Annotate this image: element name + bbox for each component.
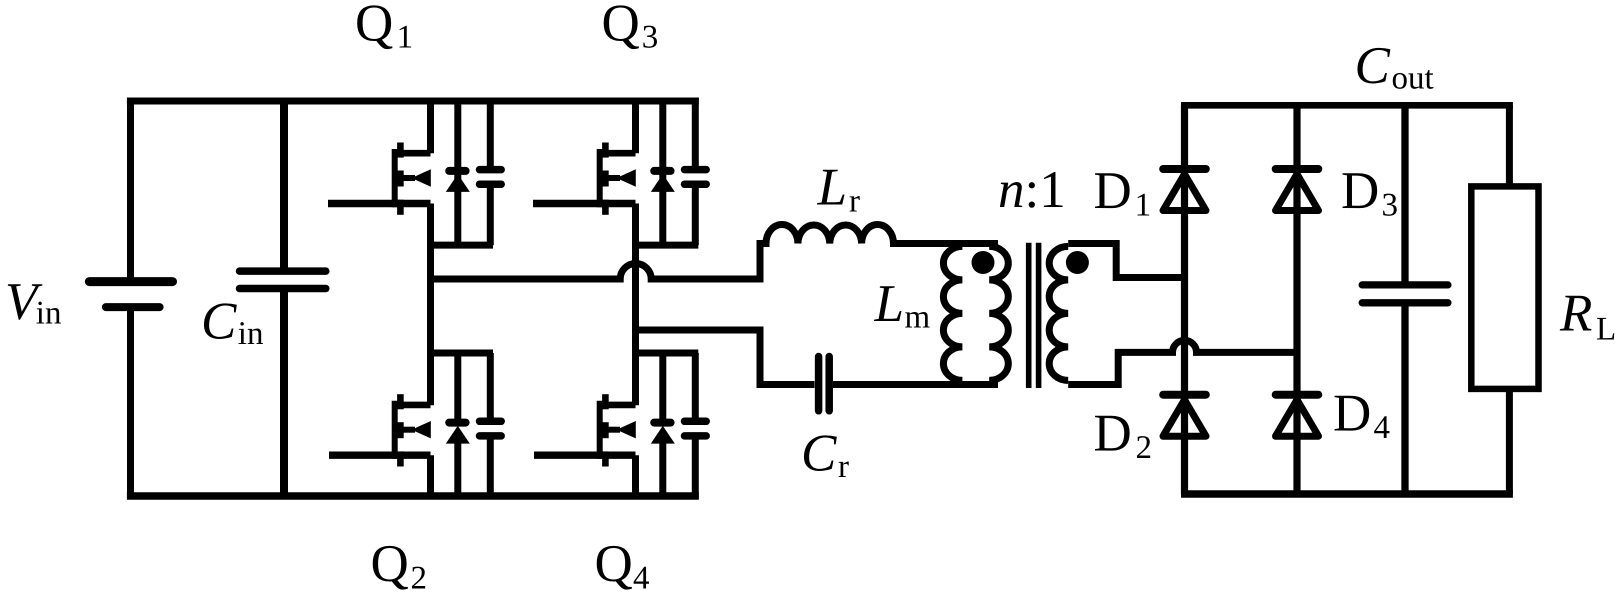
wire Cr to transformer bottom — [833, 381, 998, 388]
diode Q1 body — [446, 171, 470, 192]
svg-text:Q: Q — [602, 0, 640, 52]
cathode bar — [1163, 165, 1206, 173]
wire RL top — [1506, 105, 1513, 186]
wire Vin top — [127, 98, 134, 279]
capacitor Cr right plate — [825, 357, 833, 411]
wire gate/source lead — [534, 452, 636, 459]
wire Q4 body-diode branch top — [659, 353, 666, 424]
transformer core left bar — [1026, 243, 1032, 388]
wire Q2 cap branch top — [487, 353, 494, 418]
svg-text:in: in — [238, 316, 264, 352]
wire drain lead — [400, 402, 430, 409]
svg-text:2: 2 — [1136, 430, 1153, 466]
cathode bar — [654, 419, 670, 427]
wire Q4 cap branch top — [692, 353, 699, 418]
channel segment bottom — [397, 200, 404, 215]
wire Q1 cap branch bottom — [487, 188, 494, 246]
transformer secondary winding — [1049, 246, 1068, 380]
gate bar — [392, 401, 398, 459]
wire top rail (output) — [1181, 102, 1513, 109]
bottom plate — [685, 432, 707, 440]
channel segment bottom — [397, 451, 404, 466]
capacitor Cout bottom plate — [1362, 299, 1448, 306]
svg-text:m: m — [905, 300, 931, 336]
body arrow lead — [403, 427, 415, 433]
wire secondary top lead to D1-D2 node — [1068, 244, 1188, 278]
transistor Q3 — [533, 143, 636, 215]
capacitor Cin top plate — [240, 267, 326, 275]
wire Cout bottom — [1401, 306, 1408, 494]
svg-text:D: D — [1341, 162, 1379, 220]
wire drain lead — [605, 150, 635, 157]
diode Q2 body — [446, 423, 470, 444]
capacitor Q2 snubber — [480, 421, 502, 436]
svg-text:D: D — [1333, 385, 1371, 443]
capacitor Cr left plate — [815, 357, 823, 411]
svg-text:1: 1 — [397, 20, 414, 56]
channel segment middle — [602, 171, 609, 187]
wire Cin bottom — [280, 291, 288, 499]
svg-text:3: 3 — [1382, 188, 1399, 224]
capacitor Q4 snubber — [685, 421, 707, 436]
channel segment middle — [397, 171, 404, 187]
capacitor Cout top plate — [1362, 281, 1448, 288]
channel segment middle — [397, 422, 404, 438]
transistor Q4 — [534, 394, 636, 466]
wire Q1 cap branch top — [487, 98, 494, 167]
wire Q1 cell bottom connector — [427, 242, 493, 249]
wire drain lead — [400, 150, 430, 157]
wire Q2 body-diode branch bottom — [454, 440, 461, 499]
wire Vin bottom — [127, 307, 134, 499]
cathode bar — [449, 419, 465, 427]
wire gate/source lead — [533, 200, 636, 207]
wire Q4 body-diode branch bottom — [659, 440, 666, 499]
svg-text:C: C — [1355, 37, 1391, 95]
svg-text::1: :1 — [1025, 161, 1066, 219]
diode D1 — [1163, 169, 1206, 211]
bottom plate — [480, 180, 502, 188]
svg-text:r: r — [849, 184, 860, 220]
wire Q3 cell bottom connector — [632, 242, 698, 249]
channel segment bottom — [602, 451, 609, 466]
channel segment top — [602, 394, 609, 409]
top plate — [480, 418, 502, 426]
svg-text:C: C — [201, 293, 237, 351]
resistor RL — [1471, 186, 1538, 389]
anode triangle — [651, 174, 675, 192]
anode triangle — [446, 174, 470, 192]
svg-text:Q: Q — [355, 0, 393, 52]
channel segment top — [602, 143, 609, 158]
svg-text:1: 1 — [1135, 188, 1152, 224]
body arrow lead — [608, 427, 620, 433]
transistor Q2 — [329, 394, 431, 466]
wire Q3 cap branch top — [692, 98, 699, 167]
top plate — [685, 418, 707, 426]
bottom plate — [480, 432, 502, 440]
body arrow lead — [608, 175, 620, 181]
transformer primary winding — [989, 246, 1008, 380]
anode triangle — [651, 426, 675, 444]
gate bar — [597, 149, 603, 207]
wire RL bottom — [1506, 389, 1513, 494]
transformer core right bar — [1036, 243, 1042, 388]
wire D3-D4 branch — [1293, 105, 1300, 494]
svg-text:3: 3 — [642, 20, 659, 56]
cathode bar — [1276, 165, 1319, 173]
body arrow head — [617, 421, 636, 438]
diode D4 — [1276, 395, 1319, 437]
wire leg2 mid (Q3 source to Q4 drain) — [632, 204, 639, 406]
channel segment bottom — [602, 200, 609, 215]
capacitor Q3 snubber — [685, 170, 707, 185]
diode Q3 body — [651, 171, 675, 192]
body arrow head — [412, 169, 431, 186]
wire Q2 cap branch bottom — [487, 439, 494, 499]
wire Cout top — [1401, 105, 1408, 281]
wire leg1 mid (Q1 source to Q2 drain) — [427, 204, 434, 406]
cathode bar — [654, 167, 670, 175]
bottom plate — [685, 180, 707, 188]
svg-text:L: L — [1596, 312, 1616, 348]
wire bottom rail (bridge) — [127, 492, 699, 500]
svg-text:2: 2 — [411, 561, 428, 597]
transistor Q1 — [328, 143, 431, 215]
wire Q3 cap branch bottom — [692, 188, 699, 246]
svg-text:4: 4 — [633, 561, 650, 597]
svg-text:L: L — [874, 275, 904, 333]
wire bottom rail (output) — [1181, 490, 1513, 498]
channel segment top — [397, 143, 404, 158]
wire gate/source lead — [328, 200, 431, 207]
diode D3 — [1276, 169, 1319, 211]
channel segment middle — [602, 422, 609, 438]
anode triangle — [446, 426, 470, 444]
svg-text:D: D — [1094, 162, 1132, 220]
svg-text:Q: Q — [371, 535, 409, 593]
transformer primary polarity dot — [972, 251, 995, 274]
svg-text:out: out — [1392, 61, 1434, 97]
cathode bar — [1276, 391, 1319, 399]
wire Q4 cell top connector — [632, 350, 698, 357]
top plate — [685, 166, 707, 174]
body arrow lead — [403, 175, 415, 181]
wire Q1 drain — [427, 101, 434, 153]
wire Q2 body-diode branch top — [454, 353, 461, 424]
wire Q4 source to bottom rail — [632, 455, 639, 499]
svg-text:n: n — [998, 161, 1025, 219]
wire Q3 body-diode branch — [659, 98, 666, 246]
svg-text:r: r — [838, 449, 849, 485]
inductor Lm winding — [943, 246, 962, 380]
wire Q2 cell top connector — [427, 350, 493, 357]
cathode bar — [1163, 391, 1206, 399]
wire gate/source lead — [329, 452, 431, 459]
wire Q4 cap branch bottom — [692, 439, 699, 499]
diode Q4 body — [651, 423, 675, 444]
channel segment top — [397, 394, 404, 409]
wire Q1 body-diode branch — [454, 98, 461, 246]
transformer secondary polarity dot — [1066, 251, 1089, 274]
body arrow head — [617, 169, 636, 186]
wire drain lead — [605, 402, 635, 409]
capacitor Cin bottom plate — [240, 285, 326, 293]
svg-text:4: 4 — [1374, 410, 1391, 446]
top plate — [480, 166, 502, 174]
body arrow head — [412, 421, 431, 438]
wire Cin top — [280, 98, 288, 269]
svg-text:C: C — [801, 425, 837, 483]
diode D2 — [1163, 395, 1206, 437]
wire Q3 drain — [632, 101, 639, 153]
svg-text:Q: Q — [595, 535, 633, 593]
battery Vin long plate — [89, 277, 172, 286]
gate bar — [597, 401, 603, 459]
battery Vin short plate — [106, 303, 160, 311]
wire top rail (bridge) — [127, 98, 699, 105]
svg-text:R: R — [1559, 285, 1592, 343]
wire D1-D2 branch — [1181, 105, 1188, 494]
wire secondary bottom lead to D3-D4 node (hop over D1 branch) — [1068, 340, 1297, 384]
svg-text:L: L — [817, 159, 847, 217]
wire node B (leg2 midpoint to Cr) — [636, 330, 815, 385]
gate bar — [392, 149, 398, 207]
capacitor Q1 snubber — [480, 170, 502, 185]
svg-text:D: D — [1094, 405, 1132, 463]
wire Q2 source to bottom rail — [427, 455, 434, 499]
inductor Lr and wire node A (hop over leg2) — [431, 224, 999, 279]
cathode bar — [449, 167, 465, 175]
svg-text:in: in — [36, 296, 62, 332]
